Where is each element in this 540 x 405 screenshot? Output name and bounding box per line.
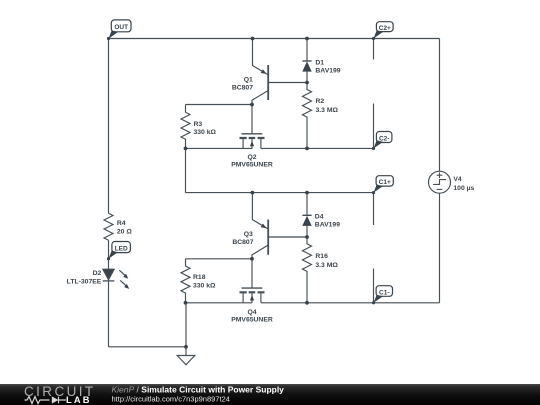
svg-text:Q2: Q2 bbox=[247, 154, 256, 161]
svg-text:OUT: OUT bbox=[114, 24, 128, 31]
voltage source V4 bbox=[429, 171, 451, 193]
svg-text:PMV65UNER: PMV65UNER bbox=[231, 162, 273, 169]
node flag C2- bbox=[372, 132, 392, 150]
svg-text:D4: D4 bbox=[315, 214, 324, 221]
resistor R18 bbox=[181, 259, 190, 303]
node flag LED bbox=[107, 242, 130, 261]
wire stub below C1+ bbox=[373, 193, 375, 225]
wire stub below C2+ bbox=[373, 39, 375, 60]
label Q2 bbox=[231, 154, 273, 169]
LED emission arrows bbox=[119, 270, 129, 289]
svg-text:LTL-307EE: LTL-307EE bbox=[67, 278, 102, 285]
svg-text:BAV199: BAV199 bbox=[315, 67, 340, 74]
label V4 bbox=[453, 176, 474, 192]
label Q3 bbox=[232, 231, 253, 246]
wire source rail lower right bbox=[261, 302, 440, 304]
ground bbox=[177, 347, 195, 365]
resistor R2 bbox=[303, 83, 312, 149]
wire right rail upper bbox=[439, 39, 441, 172]
svg-text:100 µs: 100 µs bbox=[453, 185, 474, 192]
resistor R16 bbox=[303, 237, 312, 303]
svg-text:C2-: C2- bbox=[379, 135, 389, 142]
svg-text:LED: LED bbox=[115, 245, 128, 252]
svg-text:KienP / Simulate Circuit with: KienP / Simulate Circuit with Power Supp… bbox=[112, 384, 285, 394]
wire Q1 base bbox=[268, 82, 307, 84]
svg-text:C1-: C1- bbox=[379, 289, 389, 296]
label R3 bbox=[194, 121, 217, 136]
svg-text:C1+: C1+ bbox=[379, 179, 391, 186]
wire R3 top bbox=[186, 104, 253, 106]
label Q1 bbox=[232, 76, 253, 91]
svg-text:D1: D1 bbox=[315, 59, 324, 66]
wire source rail upper left bbox=[186, 147, 253, 149]
label D2 bbox=[67, 270, 102, 285]
transistor Q1 BC807 bbox=[252, 39, 268, 134]
wire bottom left to ground bbox=[109, 346, 187, 348]
wire below LED to bottom bbox=[108, 281, 110, 347]
wire R3 node down to mid rail bbox=[185, 148, 187, 192]
wire left rail upper bbox=[108, 39, 110, 214]
node flag C1+ bbox=[372, 176, 393, 195]
svg-text:BC807: BC807 bbox=[232, 239, 253, 246]
junction dots bbox=[184, 37, 309, 349]
svg-text:C2+: C2+ bbox=[379, 25, 391, 32]
label D1 bbox=[315, 59, 340, 74]
svg-text:Q1: Q1 bbox=[244, 76, 253, 83]
svg-text:BAV199: BAV199 bbox=[315, 222, 340, 229]
svg-text:R16: R16 bbox=[315, 253, 328, 260]
wire R18 top bbox=[186, 258, 253, 260]
label R16 bbox=[315, 253, 338, 269]
LED D2 bbox=[103, 269, 115, 281]
label R2 bbox=[316, 98, 339, 114]
svg-text:http://circuitlab.com/c7n3p9n8: http://circuitlab.com/c7n3p9n897t24 bbox=[112, 395, 230, 404]
svg-text:330 kΩ: 330 kΩ bbox=[193, 282, 216, 289]
label R4 bbox=[117, 220, 132, 236]
transistor Q3 BC807 bbox=[252, 193, 268, 288]
diode D1 BAV199 bbox=[302, 39, 311, 83]
svg-text:Q3: Q3 bbox=[244, 231, 253, 238]
svg-text:Q4: Q4 bbox=[247, 309, 256, 316]
svg-text:LAB: LAB bbox=[66, 395, 92, 405]
wire stub above C1- bbox=[373, 269, 375, 303]
wire Q3 base bbox=[268, 236, 307, 238]
wire mid rail C1+ bbox=[186, 192, 374, 194]
svg-text:R18: R18 bbox=[193, 274, 206, 281]
wire Q4 source down to ground wire bbox=[185, 303, 187, 347]
svg-text:BC807: BC807 bbox=[232, 85, 253, 92]
wire top rail OUT/C2+ bbox=[109, 38, 440, 40]
svg-text:20 Ω: 20 Ω bbox=[117, 229, 132, 236]
node flag C2+ bbox=[372, 22, 393, 40]
node flag OUT bbox=[107, 20, 131, 40]
resistor R4 bbox=[104, 213, 113, 240]
mosfet Q2 PMV65UNER bbox=[240, 134, 265, 149]
svg-text:R2: R2 bbox=[316, 98, 325, 105]
node flag C1- bbox=[372, 286, 393, 305]
svg-text:R4: R4 bbox=[117, 220, 126, 227]
wire right rail lower bbox=[439, 193, 441, 303]
label Q4 bbox=[231, 309, 273, 324]
svg-text:3.3 MΩ: 3.3 MΩ bbox=[315, 262, 338, 269]
svg-text:PMV65UNER: PMV65UNER bbox=[231, 317, 273, 324]
svg-text:V4: V4 bbox=[453, 176, 462, 183]
svg-text:R3: R3 bbox=[194, 121, 203, 128]
wire R4 to LED node bbox=[108, 240, 110, 269]
wire stub above C2- bbox=[373, 104, 375, 149]
resistor R3 bbox=[181, 105, 190, 149]
svg-text:330 kΩ: 330 kΩ bbox=[194, 129, 217, 136]
diode D4 BAV199 bbox=[302, 193, 311, 237]
svg-text:3.3 MΩ: 3.3 MΩ bbox=[316, 107, 339, 114]
footer url bbox=[112, 395, 230, 404]
footer bar bbox=[0, 384, 540, 405]
footer CircuitLab logo bbox=[24, 384, 96, 405]
footer title bbox=[112, 384, 285, 394]
mosfet Q4 PMV65UNER bbox=[240, 288, 265, 303]
wire source rail lower left bbox=[186, 302, 253, 304]
wire source rail upper right to C2- bbox=[261, 147, 374, 149]
svg-text:D2: D2 bbox=[93, 270, 102, 277]
label R18 bbox=[193, 274, 216, 289]
label D4 bbox=[315, 214, 340, 229]
